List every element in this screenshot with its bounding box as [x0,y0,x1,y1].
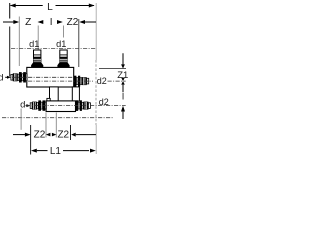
Z1 top extension line [99,68,126,70]
extension line left (L) [9,3,11,19]
bottom extension line x=56.3 [55,113,57,138]
svg-text:Z2: Z2 [57,130,69,141]
svg-text:Z2: Z2 [34,130,46,141]
dimension Z2 arrowhead+tail right [79,20,85,24]
svg-text:L: L [47,2,53,13]
svg-text:d1: d1 [56,39,66,49]
I dimension line segment [122,85,124,93]
Z2 bottom arrowhead+tail right [71,133,76,137]
dimension L line [11,5,95,7]
dimension L arrowheads [10,4,16,8]
extension line Z left [18,17,20,67]
extension line Z2 right [78,19,80,67]
dimension Z right arrowhead [38,20,44,24]
bottom extension line x=46 [45,113,47,138]
svg-text:Z: Z [25,17,31,28]
top port 1 (d1) [31,50,43,68]
axis C dash-dot (lower pipe) [26,105,126,107]
lower left port (d) [30,100,46,110]
Z1 down arrow [122,53,124,65]
extension line right (L/L1) [95,3,97,60]
top port 2 (d1) [57,50,69,68]
Z2 bottom arrowheads middle [46,133,51,137]
bottom extension line x=30.6 [30,125,32,155]
svg-text:L1: L1 [50,146,62,157]
port1 centerline extension [37,26,39,51]
svg-text:d: d [0,72,3,83]
dimension L1 [31,149,37,153]
Z1 bottom / I top arrowheads (diamond) [121,78,125,82]
upper body [27,67,74,87]
extension line below lower d label [20,109,22,130]
right port 2 (d2) [76,100,91,111]
svg-text:I: I [122,91,125,101]
svg-text:Z2: Z2 [67,17,79,28]
dimension Z arrow+tail [3,21,14,23]
boss 1 (connecting upper/lower body) [50,87,59,101]
extension line Z2 left (port2 centerline) [63,26,65,38]
boss 2 [72,87,79,101]
I bottom arrow (below axis C) [121,106,125,112]
svg-text:d1: d1 [29,39,39,49]
dimension I right arrowhead [57,20,63,24]
dimension Z2 bottom arrow+tail left [13,134,27,136]
right port 1 (d2) [74,76,89,87]
dash-dot line bottom plane [2,117,113,119]
bottom extension line x=70.5 [70,125,72,140]
svg-text:d2: d2 [97,76,107,86]
axis A dash-dot (upper pipe) [12,76,73,78]
left port (d) [11,72,27,82]
arrow d (lower left) [26,105,28,107]
axis B dash-dot (right port 1) [28,80,93,82]
arrow d (upper left) [5,76,7,78]
lower body [46,101,75,112]
svg-text:I: I [50,17,53,28]
dash-dot line top (ports plane) [11,48,96,50]
